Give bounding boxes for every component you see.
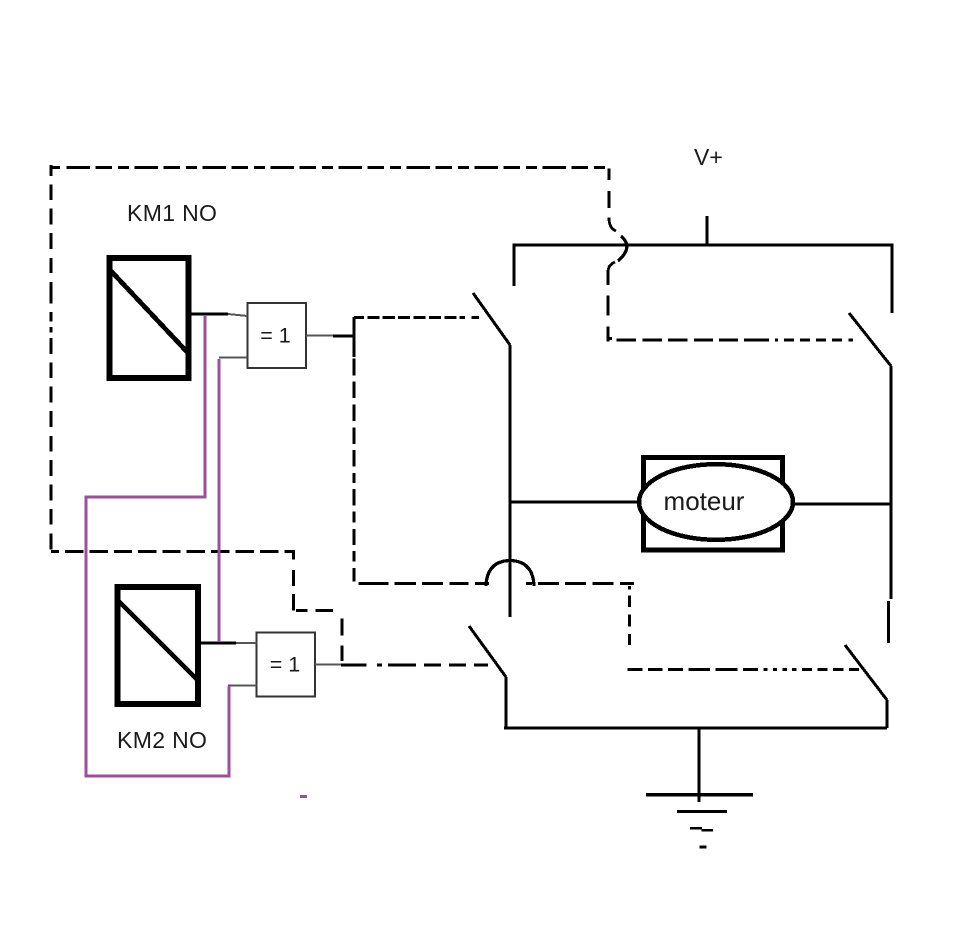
svg-text:V+: V+ — [694, 144, 723, 170]
svg-text:= 1: = 1 — [260, 324, 291, 348]
svg-text:= 1: = 1 — [270, 653, 301, 677]
svg-text:KM2 NO: KM2 NO — [117, 727, 207, 753]
svg-text:KM1 NO: KM1 NO — [127, 200, 217, 226]
svg-text:moteur: moteur — [664, 486, 745, 516]
